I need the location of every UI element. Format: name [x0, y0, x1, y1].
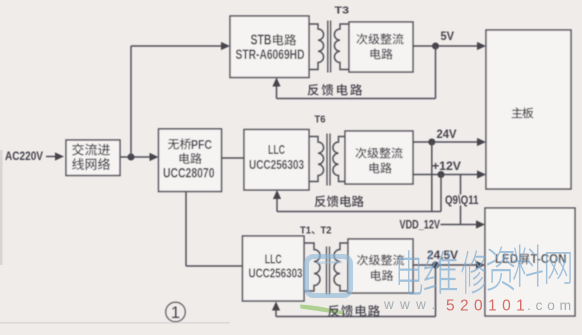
- svg-text:+12V: +12V: [432, 161, 461, 173]
- svg-text:AC220V: AC220V: [5, 151, 43, 163]
- svg-text:5V: 5V: [441, 31, 455, 43]
- svg-text:VDD_12V: VDD_12V: [400, 220, 441, 232]
- svg-text:520101: 520101: [446, 298, 530, 315]
- svg-text:T1: T1: [300, 225, 311, 237]
- svg-text:1: 1: [171, 304, 180, 322]
- svg-text:UCC256303: UCC256303: [249, 157, 304, 172]
- svg-text:24V: 24V: [437, 129, 457, 141]
- svg-text:Q9\Q11: Q9\Q11: [445, 195, 479, 207]
- svg-text:LLC: LLC: [268, 143, 285, 157]
- svg-text:T2: T2: [321, 225, 332, 237]
- svg-text:PFC: PFC: [191, 138, 212, 152]
- svg-text:www.: www.: [383, 297, 441, 312]
- svg-text:LLC: LLC: [265, 253, 282, 267]
- svg-text:UCC256303: UCC256303: [249, 266, 303, 281]
- svg-text:.com: .com: [527, 297, 576, 313]
- svg-text:T3: T3: [335, 5, 350, 17]
- svg-text:UCC28070: UCC28070: [163, 165, 215, 181]
- svg-text:T6: T6: [315, 114, 326, 126]
- svg-text:STR-A6069HD: STR-A6069HD: [236, 46, 305, 62]
